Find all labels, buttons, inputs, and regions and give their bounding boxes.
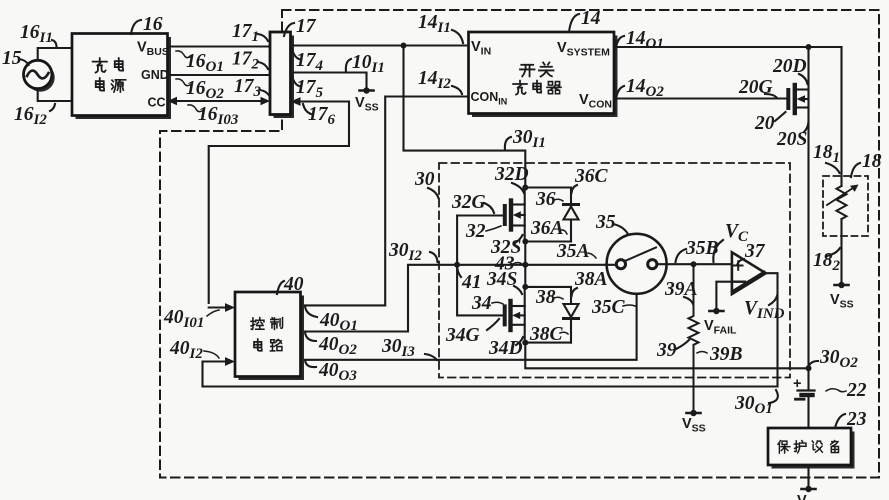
node dot 34D — [522, 340, 528, 346]
svg-text:23: 23 — [846, 409, 867, 430]
thermistor 18 branch wire — [840, 47, 842, 186]
wire 16I1 (source top to box 16) — [38, 48, 72, 60]
svg-text:171: 171 — [232, 21, 259, 45]
ground VSS under thermistor — [830, 282, 854, 311]
wire 16IO3 CC bidirectional arrow — [175, 100, 263, 102]
wire 30I2 : 40O2 up and right to node 41 — [301, 265, 458, 332]
wire 30I1 : VIN node down to MOSFET 32 drain — [404, 46, 526, 188]
svg-text:34G: 34G — [445, 325, 480, 346]
ground VSS bottom — [797, 486, 821, 500]
MOSFET 32 — [505, 188, 525, 242]
text 保护设备 — [778, 441, 839, 453]
svg-text:40I01: 40I01 — [163, 307, 204, 331]
svg-text:38C: 38C — [529, 324, 564, 345]
diode 38 — [525, 287, 578, 343]
svg-text:39A: 39A — [664, 279, 698, 300]
thermistor 18 zigzag — [837, 186, 847, 219]
svg-text:30I1: 30I1 — [512, 127, 546, 151]
text 充电 / 电源 — [93, 58, 126, 92]
svg-text:39B: 39B — [709, 344, 743, 365]
svg-text:40I2: 40I2 — [169, 338, 203, 362]
MOSFET 34 — [505, 287, 525, 343]
svg-text:36C: 36C — [574, 166, 609, 187]
svg-text:35A: 35A — [556, 241, 590, 262]
battery 22 — [793, 368, 815, 428]
wire 17_4 to VIN (node at 403.5) — [291, 44, 469, 46]
AC source 15 — [24, 60, 55, 91]
wire 32G riser from node 41 — [456, 216, 458, 265]
switch 35 circle — [607, 234, 667, 294]
svg-text:+: + — [793, 376, 801, 392]
svg-text:14: 14 — [581, 8, 601, 29]
svg-text:38A: 38A — [574, 269, 608, 290]
svg-text:14O1: 14O1 — [626, 28, 664, 52]
svg-text:CC: CC — [148, 96, 166, 110]
node dot 34S — [522, 284, 528, 290]
wire node 41 to node 43 — [457, 264, 525, 266]
wire 16O1 VBUS to connector — [168, 45, 271, 47]
text 控制 / 电路 — [251, 318, 283, 351]
arrow 40I01 into box — [225, 303, 235, 312]
wire 16I2 (source bottom to box 16) — [38, 89, 72, 101]
wire node 43 to 34S — [524, 265, 526, 287]
svg-text:172: 172 — [232, 49, 260, 73]
svg-text:22: 22 — [846, 380, 867, 401]
svg-text:38: 38 — [535, 287, 556, 308]
svg-text:40: 40 — [283, 274, 304, 295]
svg-text:30I2: 30I2 — [388, 240, 422, 264]
wire 30O2 : 34D down and right to battery node — [525, 343, 808, 369]
svg-text:VSS: VSS — [682, 416, 706, 435]
svg-text:173: 173 — [234, 76, 262, 100]
dashed box 18 — [823, 176, 868, 236]
svg-text:GND: GND — [141, 68, 169, 82]
svg-text:16O2: 16O2 — [186, 78, 224, 102]
svg-text:16I03: 16I03 — [198, 104, 239, 128]
wire 32 gate lead — [457, 214, 503, 216]
node dot 41 — [454, 262, 460, 268]
wire 35C switch bottom to 40O3 (30I3) — [301, 294, 637, 360]
svg-text:30: 30 — [414, 169, 435, 190]
svg-text:VIND: VIND — [744, 298, 785, 322]
node dot 32D — [522, 185, 528, 191]
svg-text:39: 39 — [656, 340, 677, 361]
switch 35 contacts and lever — [525, 248, 732, 269]
wire 17_5 to VSS — [291, 73, 367, 88]
svg-text:32G: 32G — [451, 192, 486, 213]
svg-text:18: 18 — [862, 151, 882, 172]
svg-text:VSS: VSS — [797, 493, 821, 500]
svg-text:10I1: 10I1 — [352, 52, 385, 76]
svg-text:32: 32 — [465, 221, 486, 242]
node dot 32S — [522, 239, 528, 245]
svg-text:36A: 36A — [530, 218, 564, 239]
box 14 switch charger — [469, 32, 618, 117]
svg-text:14I1: 14I1 — [418, 12, 451, 36]
svg-text:36: 36 — [535, 189, 556, 210]
wire 17_6 / CC net to control input 40I01 — [209, 102, 349, 304]
svg-text:16: 16 — [143, 14, 163, 35]
dashed box 30 (power path block) — [439, 163, 790, 378]
diode 36 (top wire, body, bottom wire) — [525, 188, 578, 242]
op-amp minus input to VFAIL — [716, 282, 732, 309]
wire 34G dropper from node 41 — [457, 265, 503, 316]
svg-text:30O1: 30O1 — [734, 393, 773, 417]
control circuit box 40 — [235, 292, 304, 380]
node dot VIN — [401, 43, 407, 49]
svg-text:40O2: 40O2 — [318, 334, 357, 358]
protection device box 23 — [768, 428, 855, 469]
svg-text:14I2: 14I2 — [418, 68, 451, 92]
wire 32S to node 43 — [524, 242, 526, 265]
svg-text:34D: 34D — [488, 338, 523, 359]
svg-text:VC: VC — [725, 221, 749, 245]
wire protection box to VSS bottom — [807, 465, 809, 487]
ground VSS under resistor 39 — [682, 410, 706, 435]
svg-text:14O2: 14O2 — [626, 76, 664, 100]
svg-text:16I1: 16I1 — [20, 22, 53, 46]
svg-text:41: 41 — [461, 272, 482, 293]
wire 30O1 : op-amp output down, left to 40I2 — [203, 273, 778, 386]
box 16 charging power source — [72, 34, 171, 120]
svg-text:17: 17 — [296, 16, 317, 37]
svg-text:34S: 34S — [486, 269, 518, 290]
svg-text:VSS: VSS — [830, 292, 854, 311]
svg-text:40O3: 40O3 — [318, 360, 357, 384]
wire 16O2 GND to connector — [168, 74, 271, 76]
node dot 43 — [522, 262, 528, 268]
wire 14I2 : 40O1 up to CON_IN — [301, 97, 469, 306]
MOSFET 20 — [788, 85, 808, 113]
outer dashed boundary (device 10) — [160, 10, 879, 478]
svg-text:35: 35 — [595, 212, 616, 233]
svg-text:176: 176 — [308, 104, 336, 128]
svg-text:20D: 20D — [772, 56, 807, 77]
svg-text:VFAIL: VFAIL — [704, 318, 737, 337]
svg-text:35C: 35C — [591, 297, 626, 318]
wire 14O2 VCON to gate of MOSFET 20 — [614, 97, 787, 99]
node dot battery top — [806, 365, 812, 371]
op-amp 37 — [732, 252, 766, 294]
svg-text:182: 182 — [813, 250, 841, 274]
connector 17 — [270, 32, 294, 118]
svg-text:40O1: 40O1 — [319, 310, 358, 334]
VFAIL reference symbol — [704, 308, 737, 337]
node dot 35B — [691, 261, 697, 267]
svg-text:30O2: 30O2 — [819, 347, 858, 371]
wire below thermistor — [840, 219, 842, 282]
text 开关 / 充电器 — [513, 62, 561, 94]
svg-text:174: 174 — [296, 50, 324, 74]
svg-text:20: 20 — [754, 113, 775, 134]
node dot at MOSFET 20 drain tap — [806, 44, 812, 50]
ground VSS (pin 10I1) — [355, 87, 379, 113]
svg-text:34: 34 — [471, 293, 492, 314]
svg-text:VSS: VSS — [355, 95, 379, 114]
resistor 39 — [689, 264, 699, 411]
svg-text:16I2: 16I2 — [14, 104, 47, 128]
wire 14O1 VSYSTEM rail to thermistor branch — [614, 46, 842, 48]
thermistor arrow — [827, 186, 856, 205]
wire MOSFET 20 drain/source vertical rail down to battery node — [807, 47, 809, 368]
svg-text:30I3: 30I3 — [381, 336, 415, 360]
svg-text:16O1: 16O1 — [186, 51, 224, 75]
